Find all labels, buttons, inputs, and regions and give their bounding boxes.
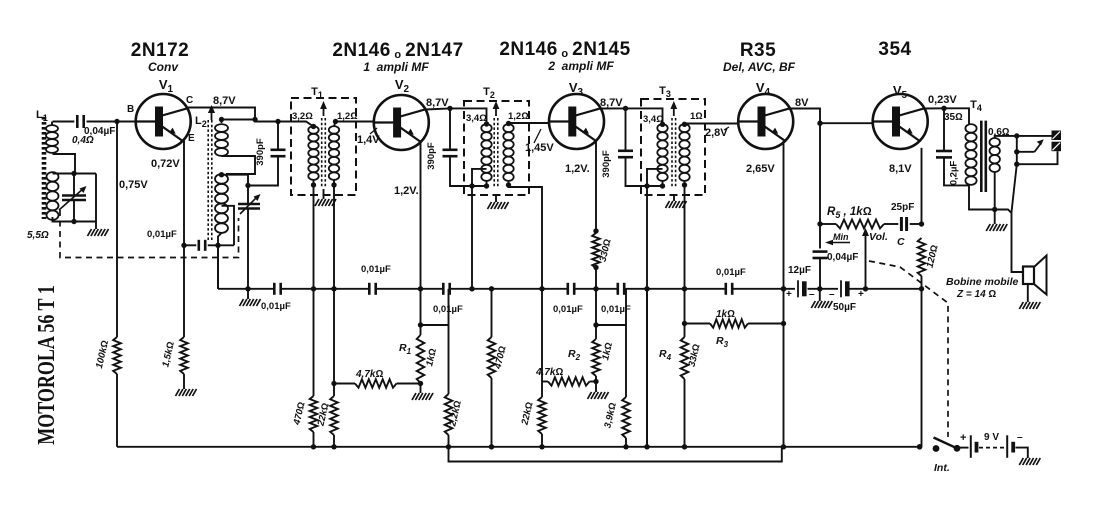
wire L2 lower top — [222, 175, 249, 204]
wire V1 emitter to 1,5k — [183, 245, 185, 337]
wire switch to battery — [957, 447, 969, 449]
svg-text:25pF: 25pF — [891, 202, 914, 213]
wire mid rail — [218, 288, 274, 290]
svg-text:2N172: 2N172 — [131, 40, 190, 61]
transistor V1 2N172 — [136, 94, 191, 149]
wire L2 tap — [222, 206, 235, 246]
core T4 iron — [981, 121, 986, 192]
speaker magnet — [1023, 267, 1034, 285]
wire 390pF-2 upper — [449, 108, 451, 149]
svg-text:R5 , 1kΩ: R5 , 1kΩ — [827, 206, 872, 220]
resistor R3 1k — [710, 319, 748, 327]
svg-text:0,72V: 0,72V — [151, 158, 180, 170]
wire L1 coil top stub — [51, 122, 53, 126]
node 4,7k-1 left — [331, 381, 336, 386]
node B+ V3 — [623, 106, 628, 111]
capacitor 12uF electrolytic — [797, 280, 799, 297]
inductor T1 primary — [308, 126, 318, 180]
wire 390pF-3 lower — [626, 157, 663, 186]
switch blade Int — [934, 438, 958, 449]
wire R3 left — [685, 323, 711, 325]
svg-text:2,65V: 2,65V — [746, 163, 775, 175]
svg-text:C: C — [897, 236, 905, 248]
wire T2 secondary top out — [509, 123, 550, 124]
wire T2 ground stub — [495, 195, 497, 202]
wire bus A — [117, 446, 920, 448]
wire top line L2 to T1 — [222, 120, 314, 127]
wire T2 primary bottom stub — [486, 181, 488, 186]
wire 4,7k-1 left — [334, 383, 355, 385]
ground speaker — [1019, 302, 1040, 309]
transistor V3 2N146/2N145 — [549, 94, 604, 149]
wire B+ drop to pot — [819, 123, 821, 248]
inductor T2 primary — [481, 124, 491, 181]
wire R1 ground stub — [420, 384, 422, 394]
ground battery — [1019, 458, 1040, 465]
node T1 primary bottom — [311, 182, 316, 187]
wire emitter bypass left — [184, 244, 196, 246]
wire 390pF-2 lower — [450, 156, 487, 186]
transistor V2 2N146/2N147 — [374, 95, 429, 150]
inductor L2 lower winding — [215, 174, 228, 233]
wire 2,2k bottom — [448, 435, 450, 447]
node emitter bypass — [181, 243, 186, 248]
svg-text:1kΩ: 1kΩ — [716, 309, 735, 320]
svg-text:1,2Ω: 1,2Ω — [508, 111, 529, 122]
svg-text:5,5Ω: 5,5Ω — [27, 230, 49, 241]
svg-text:3,4Ω: 3,4Ω — [466, 113, 487, 124]
variable capacitor CV1 tuning — [59, 174, 87, 222]
svg-text:–: – — [809, 289, 815, 300]
wire V2 collector — [426, 108, 451, 109]
svg-text:3,2Ω: 3,2Ω — [292, 111, 313, 122]
wire 390pF-1 lower — [248, 156, 278, 185]
leader 1,4V — [370, 128, 377, 134]
ground under L1 — [88, 229, 109, 236]
svg-text:354: 354 — [878, 39, 911, 60]
svg-text:0,01µF: 0,01µF — [361, 264, 391, 275]
wire 0,04uF to V1 base — [87, 121, 136, 123]
node T2 secondary bottom — [506, 182, 511, 187]
wire 22k-2 top — [541, 289, 543, 397]
wire jack middle — [1017, 151, 1035, 153]
wire R2 bottom — [595, 376, 597, 392]
wire speaker to ground — [1027, 284, 1029, 302]
wire CV2 down to rail — [247, 209, 249, 289]
svg-text:8,7V: 8,7V — [213, 95, 236, 107]
wire 4,7k-2 right — [590, 381, 597, 383]
wire V3 collector — [601, 107, 626, 109]
wire T2 secondary bottom out — [509, 181, 543, 289]
node T1 primary top — [311, 124, 316, 129]
svg-text:MOTOROLA 56 T 1: MOTOROLA 56 T 1 — [33, 285, 60, 444]
wire L1 lower bottom — [53, 217, 97, 222]
resistor R4 33k — [681, 337, 689, 379]
wire 100k feed — [116, 122, 118, 338]
variable capacitor CV2 oscillator — [238, 194, 261, 214]
battery cell 1 — [971, 435, 979, 458]
ground under 1,5k — [176, 389, 197, 396]
capacitor 0,04uF — [76, 115, 79, 128]
resistor 2,2k — [445, 394, 453, 435]
svg-text:0,01µF: 0,01µF — [147, 229, 177, 240]
node 390pF-1 top — [275, 119, 280, 124]
svg-text:1,2V.: 1,2V. — [394, 185, 419, 197]
resistor 3,9k — [622, 397, 630, 438]
svg-text:8,7V: 8,7V — [600, 97, 623, 109]
wire 390pF-1 upper — [277, 122, 279, 150]
dashed gang link L1-L2 — [60, 210, 239, 258]
wire 22k-1 bottom — [333, 435, 335, 447]
wire T1 primary bottom down — [313, 180, 315, 289]
wire V5 base — [820, 122, 873, 124]
ground T4 — [986, 224, 1007, 231]
dashed link volume to switch — [869, 261, 948, 437]
capacitor 0,01uF-3 — [442, 283, 445, 295]
node T2 primary top — [484, 121, 489, 126]
svg-text:0,01µF: 0,01µF — [716, 267, 746, 278]
inductor T4 primary — [965, 124, 976, 185]
wire rail start drop — [217, 245, 219, 288]
svg-text:1,2V.: 1,2V. — [565, 163, 590, 175]
capacitor 0,01uF-4 — [566, 283, 569, 295]
ground R1 — [412, 393, 433, 400]
capacitor 390pF-1 — [271, 149, 286, 152]
inductor T4 secondary — [990, 138, 1000, 172]
svg-text:E: E — [188, 133, 195, 144]
svg-text:0,75V: 0,75V — [119, 179, 148, 191]
wire T4 secondary top — [995, 136, 1017, 138]
wire 1,5k to ground — [183, 374, 185, 389]
wire V4 emitter down — [783, 289, 785, 447]
wire 0,2uF upper — [943, 108, 945, 150]
svg-text:C: C — [186, 95, 193, 106]
jack plunger arrow — [1035, 139, 1044, 152]
svg-text:0,01µF: 0,01µF — [553, 304, 583, 315]
junction top line — [219, 117, 224, 122]
wire pot left stub — [820, 223, 836, 225]
wire L1 upper to lower link — [53, 154, 76, 174]
node pot left — [817, 221, 822, 226]
svg-text:1,45V: 1,45V — [525, 142, 554, 154]
wire rail ground stub — [247, 289, 249, 299]
speaker cone — [1034, 256, 1047, 295]
node rail 12uF left — [781, 286, 786, 291]
wire T3 tap — [647, 169, 663, 186]
node T3 secondary bottom — [682, 182, 687, 187]
svg-text:1,2Ω: 1,2Ω — [337, 111, 358, 122]
wire 470-1 bottom — [313, 432, 315, 447]
wire bypass node down to rail — [217, 245, 219, 288]
svg-text:0,23V: 0,23V — [928, 94, 957, 106]
ground T1 — [315, 199, 336, 206]
wire 2,2k chain — [448, 289, 450, 394]
wire T4 secondary bottom — [994, 173, 996, 210]
junction rail nodes — [311, 286, 316, 291]
node 330 top — [593, 228, 598, 233]
inductor L1 lower winding — [47, 172, 59, 220]
wire T3 secondary bottom down — [684, 181, 686, 289]
transistor V4 R35 — [738, 94, 793, 149]
wire 0,04uF to rail — [819, 258, 821, 289]
wire emitter bypass right — [208, 244, 234, 246]
resistor R2 1k — [592, 339, 600, 376]
node B+ V2 — [447, 106, 452, 111]
wire jack lower contact — [1017, 151, 1058, 164]
capacitor 0,01uF emitter V1 — [198, 240, 201, 251]
svg-text:–: – — [1017, 432, 1023, 443]
node 390pF-1 bottom — [245, 183, 250, 188]
wire 470-2 top — [491, 289, 493, 337]
svg-text:4,7kΩ: 4,7kΩ — [535, 367, 563, 378]
inductor T1 secondary — [329, 126, 339, 180]
node rail ground stub — [245, 286, 250, 291]
capacitor 50uF electrolytic — [840, 280, 842, 297]
switch contact right — [954, 445, 961, 452]
wire rail to R4 — [684, 289, 686, 337]
leader 1,45V — [534, 129, 541, 143]
junction CV1 — [71, 171, 76, 176]
svg-text:8,1V: 8,1V — [889, 163, 912, 175]
wire T3 ground stub — [673, 195, 675, 201]
wire 25pF to emitter line — [910, 223, 922, 225]
dashed battery link — [979, 447, 1006, 449]
svg-text:0,04µF: 0,04µF — [84, 126, 115, 137]
svg-text:Min: Min — [833, 232, 849, 242]
junction jack nodes — [1014, 133, 1019, 138]
wire V4 collector 8V — [790, 108, 820, 123]
wire 3,9k bottom — [625, 438, 627, 447]
node R1 bottom — [418, 381, 423, 386]
wire R4 bottom — [684, 379, 686, 447]
wire 4,7k-2 left — [542, 381, 548, 383]
wire pot right to 25pF — [884, 223, 898, 225]
transformer T3 shield box — [641, 99, 705, 195]
capacitor 0,01uF-2 — [368, 283, 371, 295]
wire T3 secondary top out — [685, 123, 739, 126]
ground T3 — [666, 201, 687, 208]
capacitor 0,01uF-1 — [273, 283, 276, 295]
switch contact left — [933, 445, 940, 452]
wire L2 upper top — [221, 120, 223, 124]
node 0,2uF top — [941, 106, 946, 111]
svg-text:0,01µF: 0,01µF — [261, 301, 291, 312]
wire T2 tap down to rail — [471, 186, 473, 289]
wire collector to T4 — [944, 108, 969, 124]
svg-text:4,7kΩ: 4,7kΩ — [355, 369, 383, 380]
svg-text:Conv: Conv — [148, 60, 179, 74]
svg-text:1 ampli MF: 1 ampli MF — [363, 60, 429, 74]
wire L1 right side — [95, 174, 97, 222]
resistor 470-ohm-2 — [488, 337, 496, 378]
node switch feed — [917, 444, 922, 449]
wire V3 emitter — [595, 141, 597, 232]
node T1 secondary top — [333, 119, 338, 124]
wire 470-1 top — [313, 289, 315, 396]
wire V1 emitter — [183, 139, 185, 246]
node T2 secondary top — [506, 121, 511, 126]
capacitor 0,2uF — [936, 150, 952, 153]
arrow Min — [825, 240, 850, 245]
junction bus A nodes — [311, 444, 316, 449]
capacitor 25pF — [900, 217, 903, 231]
inductor T3 secondary — [679, 124, 689, 181]
wire jack to speaker — [1012, 164, 1024, 272]
wire 22k-1 top — [333, 289, 335, 396]
svg-text:Bobine mobile: Bobine mobile — [946, 276, 1018, 288]
node T4 bottom — [992, 207, 997, 212]
svg-text:–: – — [829, 289, 835, 300]
capacitor 390pF-2 — [443, 149, 458, 152]
jack contact lower — [1052, 142, 1062, 152]
node base V1 / 100k — [114, 119, 119, 124]
node R3 left — [682, 321, 687, 326]
node T3 primary bottom — [660, 183, 665, 188]
wire jack top contact — [1017, 135, 1052, 137]
ground R2 — [588, 392, 609, 399]
node T3 tap bottom — [644, 183, 649, 188]
wire ground stub L1 — [95, 222, 97, 230]
node 330 bottom — [593, 265, 598, 270]
inductor L1 upper winding — [46, 125, 58, 153]
resistor 120-ohm — [918, 238, 926, 276]
wire L1 to base V1 — [53, 121, 75, 123]
svg-text:R35: R35 — [740, 40, 776, 61]
svg-text:Z = 14 Ω: Z = 14 Ω — [956, 289, 996, 300]
node L2 lower top — [219, 172, 224, 177]
wire T1 secondary bottom down — [333, 180, 335, 289]
svg-text:35Ω: 35Ω — [944, 112, 963, 123]
svg-text:+: + — [786, 289, 792, 300]
svg-text:2 ampli MF: 2 ampli MF — [547, 59, 614, 73]
wire T2 tap — [472, 169, 487, 186]
ground at 12uF — [811, 301, 832, 308]
wire bus B — [449, 447, 782, 462]
wire T4 ground stub — [994, 210, 996, 225]
capacitor 0,04uF — [813, 250, 828, 253]
svg-text:Vol.: Vol. — [869, 231, 888, 243]
core T1 — [320, 101, 327, 188]
wire 120 to rail — [921, 276, 923, 289]
potentiometer R5 1k-ohm — [836, 220, 884, 229]
wire 4,7k-1 right — [397, 383, 421, 385]
wiper arrow R5 — [862, 228, 869, 238]
wire V2 emitter — [420, 141, 422, 335]
wire 100k to bus — [116, 374, 118, 447]
wire V5 emitter — [921, 148, 923, 224]
capacitor 0,01uF-6 — [724, 283, 727, 295]
wire T3 primary bottom stub — [662, 181, 664, 186]
inductor T2 secondary — [503, 124, 513, 181]
core T2 — [493, 101, 500, 188]
svg-text:+: + — [960, 432, 966, 444]
svg-text:390pF: 390pF — [426, 142, 437, 170]
svg-text:9 V: 9 V — [984, 432, 999, 443]
wire 0,2uF lower — [944, 158, 969, 186]
resistor 4,7k-1 — [355, 379, 397, 387]
wire jack vertical — [1016, 136, 1018, 164]
wire 3,9k chain — [625, 289, 627, 397]
svg-text:1,4V: 1,4V — [357, 134, 380, 146]
wire battery to ground — [1016, 448, 1028, 458]
resistor 470-ohm-1 — [310, 396, 318, 432]
wire R3 right — [748, 323, 784, 325]
core L2 — [208, 120, 212, 242]
inductor L2 upper winding — [215, 124, 228, 156]
wire L-link stage2 — [596, 324, 626, 326]
core T3 — [670, 101, 677, 188]
inductor T3 primary — [657, 124, 667, 181]
ground mid rail — [240, 299, 261, 306]
wire wiper down — [865, 237, 867, 289]
wire L-link stage1 — [421, 324, 449, 326]
leader 2,8V — [724, 127, 729, 130]
svg-text:50µF: 50µF — [833, 302, 856, 313]
svg-text:Int.: Int. — [934, 462, 950, 474]
svg-text:0,2µF: 0,2µF — [949, 161, 960, 186]
node L2 bottom on bypass — [215, 243, 220, 248]
node T2 primary bottom — [484, 183, 489, 188]
wire T3 tap through rail — [646, 289, 648, 447]
node 25pF emitter junction — [919, 221, 924, 226]
node T1 secondary bottom — [331, 182, 336, 187]
resistor 22k-2 — [538, 397, 546, 434]
node T3 secondary top — [682, 122, 687, 127]
svg-text:8,7V: 8,7V — [426, 97, 449, 109]
wire V1 collector 8,7V — [187, 108, 256, 120]
jack contact upper — [1052, 131, 1062, 141]
wire L1 lower top — [53, 173, 97, 175]
node R2 bottom — [593, 379, 598, 384]
node V5 base tap — [817, 121, 822, 126]
transistor V5 354 — [873, 94, 928, 149]
wire rail ground stub 820 — [819, 289, 821, 301]
wire V5 collector — [925, 107, 945, 109]
transformer T2 shield box — [464, 101, 529, 195]
resistor 330-ohm — [592, 233, 600, 268]
svg-text:390pF: 390pF — [255, 138, 266, 166]
transformer T1 shield box — [291, 98, 356, 195]
node T2 tap bottom — [469, 183, 474, 188]
antenna rod core L1 — [42, 117, 47, 219]
svg-text:Del, AVC, BF: Del, AVC, BF — [723, 60, 796, 74]
resistor 4,7k-2 — [548, 377, 590, 385]
wire V4 emitter — [783, 141, 785, 289]
resistor 1,5k-ohm — [180, 337, 188, 374]
wire T3 tap down — [646, 186, 648, 447]
svg-text:8V: 8V — [795, 97, 809, 109]
wire V5 line to switch — [921, 289, 923, 447]
resistor R1 1k — [417, 335, 425, 383]
wire 22k-2 bottom — [541, 434, 543, 447]
arrow core L2 — [208, 105, 215, 120]
wire B+ into T2 — [450, 108, 487, 124]
node T3 primary top — [660, 122, 665, 127]
capacitor 390pF-3 — [618, 150, 633, 153]
node L-link stage1 — [418, 322, 423, 327]
capacitor 0,01uF-5 — [616, 283, 619, 295]
wire 330 to rail — [595, 268, 597, 289]
wire T4 primary bottom — [969, 185, 1012, 213]
node L-link stage2 — [593, 322, 598, 327]
resistor 22k-1 — [330, 396, 338, 435]
wire B+ into T3 — [626, 108, 663, 124]
wire T1 ground stub — [323, 189, 325, 199]
wire 390pF-3 upper — [625, 108, 627, 150]
svg-text:12µF: 12µF — [788, 265, 811, 276]
svg-text:0,04µF: 0,04µF — [827, 252, 858, 263]
svg-text:B: B — [127, 104, 134, 115]
